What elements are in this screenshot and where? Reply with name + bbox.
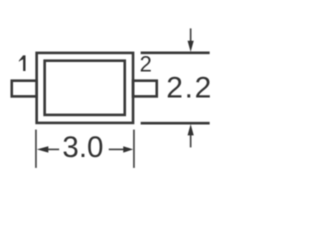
svg-text:2.2: 2.2 <box>166 72 213 105</box>
svg-text:2: 2 <box>140 51 152 76</box>
svg-text:3.0: 3.0 <box>62 131 103 164</box>
